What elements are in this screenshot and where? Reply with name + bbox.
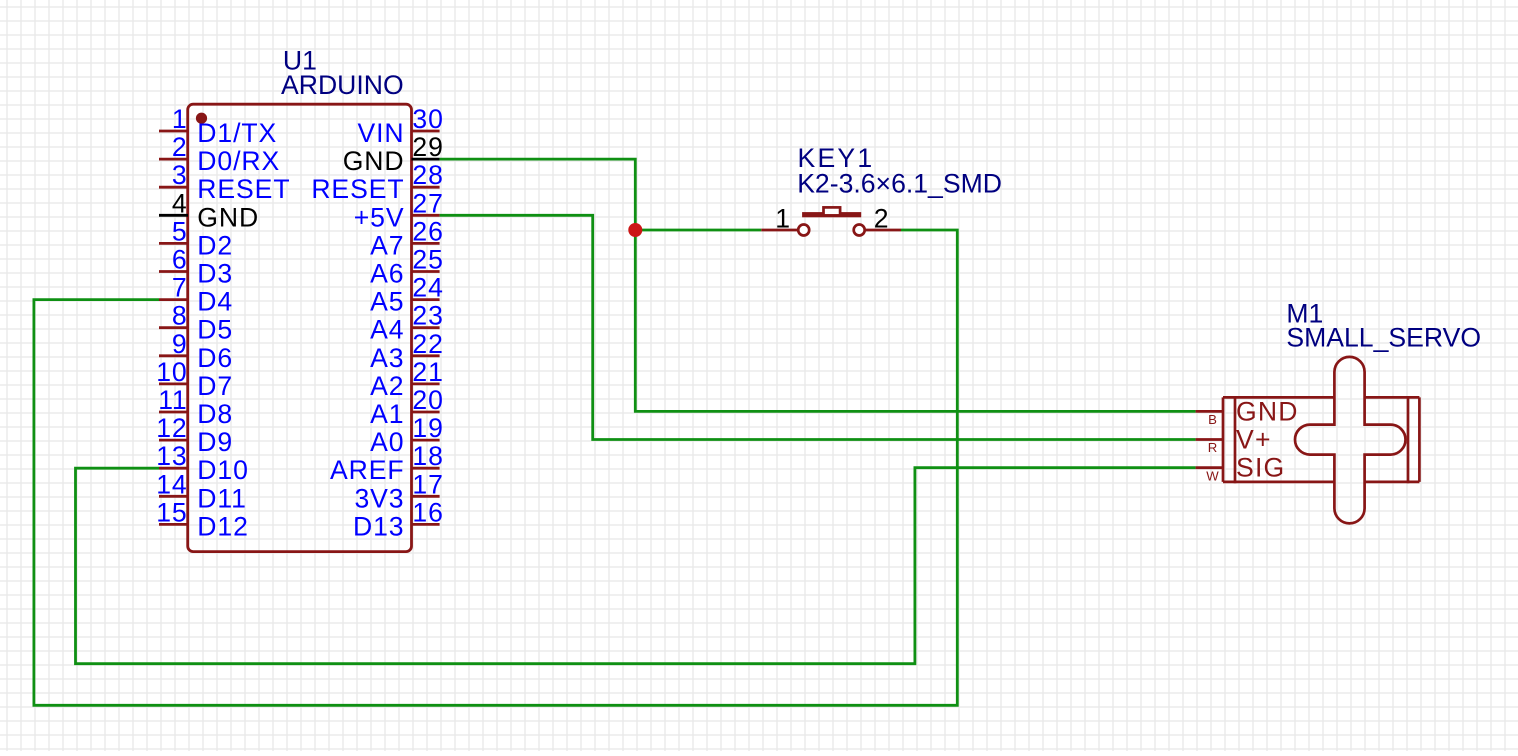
U1 pin 21 (A2) — [370, 357, 444, 401]
U1 pin 27 (+5V) — [354, 188, 444, 232]
KEY1 pin 2 stub — [865, 229, 901, 232]
svg-text:5: 5 — [172, 216, 188, 246]
U1 pin 29 (GND) — [343, 132, 444, 176]
svg-text:30: 30 — [412, 104, 443, 134]
svg-text:SIG: SIG — [1236, 453, 1285, 483]
svg-text:D8: D8 — [197, 399, 233, 429]
U1 pin 15 (D12) — [156, 497, 249, 541]
svg-text:R: R — [1208, 440, 1218, 455]
U1 pin 14 (D11) — [156, 469, 247, 513]
motor M1 designator label — [1286, 299, 1323, 329]
KEY1 pin 1 number — [775, 204, 792, 234]
svg-text:D12: D12 — [197, 511, 249, 541]
svg-text:A1: A1 — [370, 399, 404, 429]
svg-text:13: 13 — [156, 441, 187, 471]
svg-text:D2: D2 — [197, 230, 233, 260]
svg-text:D1/TX: D1/TX — [197, 118, 277, 148]
svg-text:14: 14 — [156, 469, 187, 499]
svg-text:W: W — [1206, 468, 1219, 483]
M1 part name SMALL_SERVO — [1286, 323, 1481, 353]
svg-text:D9: D9 — [197, 427, 233, 457]
svg-text:RESET: RESET — [311, 174, 404, 204]
svg-text:V+: V+ — [1236, 425, 1272, 455]
svg-text:8: 8 — [172, 301, 188, 331]
svg-text:+5V: +5V — [354, 202, 405, 232]
U1 pin 18 (AREF) — [330, 441, 444, 485]
KEY1 pin 2 contact circle — [854, 225, 865, 236]
KEY1 pin 2 number — [874, 203, 891, 233]
svg-text:D3: D3 — [197, 259, 233, 289]
svg-text:A2: A2 — [370, 371, 404, 401]
svg-text:A5: A5 — [370, 287, 404, 317]
U1 pin 6 (D3) — [159, 245, 233, 289]
svg-text:6: 6 — [172, 245, 188, 275]
svg-text:28: 28 — [412, 160, 443, 190]
U1 pin 10 (D7) — [156, 357, 233, 401]
U1 pin 3 (RESET) — [159, 160, 290, 204]
KEY1 part name K2-3.6x6.1_SMD — [797, 169, 1002, 199]
U1 pin 5 (D2) — [159, 216, 233, 260]
wire D4 net: U1 pin7 to KEY1 pin2 — [34, 230, 957, 705]
KEY1 button bar — [802, 212, 861, 217]
svg-text:2: 2 — [874, 203, 891, 233]
U1 pin 7 (D4) — [159, 273, 233, 317]
svg-text:A7: A7 — [370, 230, 404, 260]
svg-text:A0: A0 — [370, 427, 404, 457]
IC U1 body — [188, 104, 412, 551]
svg-text:10: 10 — [156, 357, 187, 387]
U1 pin-1 marker dot — [196, 113, 207, 124]
svg-text:16: 16 — [412, 497, 443, 527]
svg-text:GND: GND — [1236, 396, 1299, 426]
svg-text:AREF: AREF — [330, 455, 405, 485]
svg-text:9: 9 — [172, 329, 188, 359]
svg-text:29: 29 — [412, 132, 443, 162]
svg-text:22: 22 — [412, 329, 443, 359]
svg-text:3V3: 3V3 — [354, 483, 404, 513]
svg-text:A3: A3 — [370, 343, 404, 373]
wire +5V net: U1 pin27 to servo V+ — [440, 215, 1196, 439]
svg-text:1: 1 — [775, 204, 792, 234]
svg-text:K2-3.6×6.1_SMD: K2-3.6×6.1_SMD — [797, 169, 1002, 199]
svg-text:7: 7 — [172, 273, 188, 303]
U1 pin 13 (D10) — [156, 441, 249, 485]
svg-text:25: 25 — [412, 245, 443, 275]
svg-text:GND: GND — [343, 146, 405, 176]
switch KEY1 designator label — [798, 143, 875, 173]
U1 pin 9 (D6) — [159, 329, 233, 373]
svg-text:D13: D13 — [353, 511, 405, 541]
U1 pin 4 (GND) — [159, 188, 259, 232]
U1 pin 28 (RESET) — [311, 160, 443, 204]
svg-text:4: 4 — [172, 188, 188, 218]
svg-text:19: 19 — [412, 413, 443, 443]
wire GND net: U1 pin29 to junction to servo GND — [440, 159, 1196, 411]
U1 pin 2 (D0/RX) — [159, 132, 280, 176]
svg-text:27: 27 — [412, 188, 443, 218]
svg-text:D6: D6 — [197, 343, 233, 373]
svg-text:21: 21 — [412, 357, 443, 387]
U1 pin 20 (A1) — [370, 385, 444, 429]
U1 pin 17 (3V3) — [354, 469, 443, 513]
svg-text:D7: D7 — [197, 371, 233, 401]
svg-text:20: 20 — [412, 385, 443, 415]
svg-text:2: 2 — [172, 132, 188, 162]
svg-text:A6: A6 — [370, 259, 404, 289]
svg-text:ARDUINO: ARDUINO — [281, 70, 404, 100]
svg-text:3: 3 — [172, 160, 188, 190]
svg-text:B: B — [1208, 412, 1217, 427]
svg-text:23: 23 — [412, 301, 443, 331]
U1 pin 25 (A6) — [370, 245, 444, 289]
U1 pin 26 (A7) — [370, 216, 444, 260]
M1 pin B (GND) — [1196, 396, 1299, 427]
svg-text:12: 12 — [156, 413, 187, 443]
svg-text:24: 24 — [412, 273, 443, 303]
U1 pin 19 (A0) — [370, 413, 444, 457]
U1 pin 23 (A4) — [370, 301, 444, 345]
svg-text:D10: D10 — [197, 455, 249, 485]
U1 pin 8 (D5) — [159, 301, 233, 345]
U1 pin 16 (D13) — [353, 497, 444, 541]
KEY1 pin 1 stub — [761, 229, 798, 232]
KEY1 pin 1 contact circle — [798, 225, 809, 236]
svg-text:D0/RX: D0/RX — [197, 146, 280, 176]
svg-text:1: 1 — [172, 104, 188, 134]
IC U1 part name ARDUINO — [281, 70, 404, 100]
svg-text:17: 17 — [412, 469, 443, 499]
M1 pin R (V+) — [1196, 425, 1272, 456]
U1 pin 11 (D8) — [158, 385, 233, 429]
M1 servo body outline — [1223, 397, 1419, 482]
M1 pin W (SIG) — [1196, 453, 1286, 484]
svg-text:RESET: RESET — [197, 174, 290, 204]
svg-text:15: 15 — [156, 497, 187, 527]
svg-text:11: 11 — [158, 385, 187, 415]
svg-text:VIN: VIN — [357, 118, 404, 148]
U1 pin 1 (D1/TX) — [159, 104, 277, 148]
KEY1 button actuator — [824, 207, 841, 215]
U1 pin 30 (VIN) — [357, 104, 443, 148]
wire GND branch: junction to KEY1 pin1 — [635, 229, 761, 232]
wire D10 net: U1 pin13 to servo SIG — [76, 468, 1196, 664]
svg-text:GND: GND — [197, 202, 259, 232]
M1 servo body inner right line — [1407, 396, 1410, 483]
svg-text:D11: D11 — [197, 483, 247, 513]
junction dot — [628, 223, 642, 237]
svg-text:26: 26 — [412, 216, 443, 246]
svg-text:A4: A4 — [370, 315, 404, 345]
svg-text:D5: D5 — [197, 315, 233, 345]
svg-text:SMALL_SERVO: SMALL_SERVO — [1286, 323, 1481, 353]
svg-text:D4: D4 — [197, 287, 233, 317]
M1 servo horn (cross) — [1295, 357, 1406, 524]
U1 pin 22 (A3) — [370, 329, 444, 373]
U1 pin 24 (A5) — [370, 273, 444, 317]
svg-text:18: 18 — [412, 441, 443, 471]
M1 servo body inner left line — [1234, 396, 1237, 483]
IC U1 designator label — [283, 45, 317, 75]
U1 pin 12 (D9) — [156, 413, 233, 457]
